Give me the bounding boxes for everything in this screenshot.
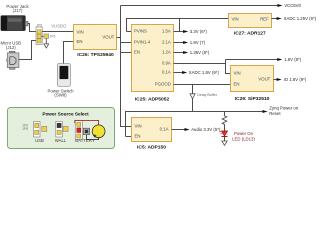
- svg-text:REF: REF: [260, 17, 269, 22]
- svg-text:IC26: TPS25940: IC26: TPS25940: [77, 52, 114, 58]
- op IC29 SiP32510 box: [231, 66, 274, 92]
- op IC27 ADR127 box: [229, 14, 272, 28]
- svg-text:Power On: Power On: [234, 131, 254, 136]
- svg-text:1.8V (7): 1.8V (7): [190, 40, 206, 45]
- svg-text:IC25: ADP5052: IC25: ADP5052: [135, 96, 170, 102]
- svg-text:Zynq Power on: Zynq Power on: [269, 105, 299, 110]
- wire: VCC5V0 rail: [121, 5, 278, 7]
- svg-text:Delay Buffer: Delay Buffer: [197, 93, 218, 97]
- op IC26 TPS25940 box: [74, 25, 117, 50]
- svg-text:IO 1.8V (9*): IO 1.8V (9*): [284, 77, 307, 82]
- wire: reset rail: [126, 112, 264, 137]
- svg-text:1.35V (8*): 1.35V (8*): [190, 50, 210, 55]
- svg-text:1.2A: 1.2A: [162, 50, 171, 55]
- svg-text:XADC 1.8V (9*): XADC 1.8V (9*): [189, 70, 220, 75]
- power jack J17 icon: [1, 16, 28, 31]
- power jack J17 label: [6, 4, 29, 13]
- wire+arrow: IO 1.8V out: [274, 77, 307, 82]
- battery cell: [92, 125, 105, 138]
- svg-text:USB: USB: [35, 138, 44, 143]
- svg-text:Audio 3.3V (5*): Audio 3.3V (5*): [191, 127, 221, 132]
- wire: USB to header JP5 bottom pin: [19, 41, 37, 60]
- svg-text:0.1A: 0.1A: [162, 69, 171, 74]
- svg-text:PGOOD: PGOOD: [155, 81, 171, 86]
- svg-text:IC29: SiP32510: IC29: SiP32510: [235, 96, 270, 102]
- svg-text:JP6: JP6: [50, 35, 56, 39]
- wire: 0.9A branch to IC29 VIN: [226, 60, 231, 74]
- wire: buffer output down to reset rail: [192, 99, 194, 112]
- svg-text:IC27: ADR127: IC27: ADR127: [234, 31, 266, 37]
- ground (input select): [44, 38, 49, 48]
- svg-text:PVINS: PVINS: [134, 29, 147, 34]
- wire: PVINS stub: [127, 31, 132, 33]
- svg-text:EN: EN: [234, 81, 240, 86]
- wire: bus to IC25 EN: [121, 52, 132, 54]
- header JP5 (3-pin): [36, 27, 42, 45]
- wire: 0.9A output row: [174, 63, 226, 65]
- delay buffer symbol: [190, 93, 218, 99]
- wire: jog up to 1.8V branch: [226, 59, 278, 61]
- power source select group box: [8, 108, 115, 149]
- wire: 3.3V feedback rail to PVINS and IC27 VIN: [127, 19, 229, 32]
- wire: IC26 VOUT stub: [117, 37, 121, 39]
- wire: PGOOD to IC29 EN: [174, 84, 231, 86]
- power switch SW8 icon: [57, 63, 70, 86]
- svg-text:LED (LD13): LED (LD13): [232, 136, 255, 141]
- wire+arrow: XADC 1.25V reference out: [272, 16, 317, 21]
- arrow+label Zynq Power on Reset: [263, 105, 299, 116]
- svg-text:EN: EN: [134, 50, 140, 55]
- wire+arrow: 3.3V output: [174, 29, 208, 34]
- wire: battery negative: [87, 135, 99, 140]
- power switch SW8 label: [47, 88, 74, 97]
- LED LD13: [220, 131, 228, 141]
- op IC5 ADP150 box: [132, 118, 172, 142]
- wire: reset rail into IC5 EN: [126, 136, 132, 138]
- LED label: [232, 131, 255, 142]
- resistor (LED series): [222, 112, 227, 132]
- wire: bus to IC25 PVIN1-4: [121, 42, 132, 44]
- svg-text:0.1A: 0.1A: [160, 127, 169, 132]
- svg-text:VOUT: VOUT: [102, 34, 114, 39]
- wire: main 5V vertical bus: [121, 6, 132, 127]
- svg-text:IC5: ADP150: IC5: ADP150: [137, 144, 166, 150]
- wire: VUSBO header to IC26 VIN: [42, 31, 73, 33]
- wire: jack to header JP5 top pin: [28, 24, 37, 32]
- svg-text:(J17): (J17): [13, 8, 23, 13]
- svg-text:VIN: VIN: [77, 30, 84, 35]
- svg-text:2.1A: 2.1A: [162, 40, 171, 45]
- arrow+label 1.8V (8*): [277, 57, 302, 62]
- svg-text:3.3V (6*): 3.3V (6*): [190, 29, 208, 34]
- svg-text:(SW8): (SW8): [54, 93, 67, 98]
- ground (LED): [222, 141, 227, 145]
- svg-text:Power Source Select: Power Source Select: [42, 111, 89, 116]
- svg-text:VIN: VIN: [135, 123, 142, 128]
- battery holder component: [83, 128, 89, 134]
- wire+arrow: 1.8V output: [174, 40, 206, 45]
- svg-text:PVIN1-4: PVIN1-4: [134, 40, 151, 45]
- micro USB J12 icon: [6, 51, 19, 69]
- BATTERY select header: [75, 120, 82, 139]
- wire: battery positive (red): [75, 120, 99, 124]
- svg-text:(J12): (J12): [6, 45, 16, 50]
- svg-text:Reset: Reset: [269, 111, 281, 116]
- wire: switch to IC26 EN: [64, 42, 74, 64]
- svg-text:1.5A: 1.5A: [162, 29, 171, 34]
- svg-text:1.8V (8*): 1.8V (8*): [284, 57, 302, 62]
- svg-text:BATTERY: BATTERY: [75, 138, 95, 143]
- svg-text:EN: EN: [135, 133, 141, 138]
- op IC25 ADP5052 box: [132, 25, 174, 92]
- jumper labels JP6 JP8: [22, 124, 28, 132]
- svg-text:EN: EN: [77, 39, 83, 44]
- svg-text:VIN: VIN: [232, 17, 239, 22]
- svg-text:WALL: WALL: [55, 138, 67, 143]
- svg-text:XADC 1.25V (6*): XADC 1.25V (6*): [284, 16, 317, 21]
- micro USB J12 label: [1, 41, 22, 51]
- svg-text:JP8: JP8: [22, 127, 28, 131]
- svg-text:0.9A: 0.9A: [162, 60, 171, 65]
- svg-text:VOUT: VOUT: [258, 76, 270, 81]
- wire: 3.3V tap vertical: [179, 19, 181, 32]
- wire+arrow: Audio 3.3V out: [172, 127, 221, 132]
- wire: PGOOD branch down through delay buffer: [192, 85, 194, 94]
- svg-text:VUSBO: VUSBO: [51, 24, 67, 29]
- WALL select header: [56, 122, 68, 138]
- USB select header: [34, 122, 47, 138]
- svg-text:VCC5V0: VCC5V0: [284, 3, 301, 8]
- wire+arrow: 1.35V output: [174, 50, 210, 55]
- svg-text:VIN: VIN: [234, 70, 241, 75]
- node VCC5V0: [277, 3, 301, 8]
- wire+arrow: XADC 1.8V output: [174, 70, 220, 75]
- jumper pin JP6: [41, 34, 55, 39]
